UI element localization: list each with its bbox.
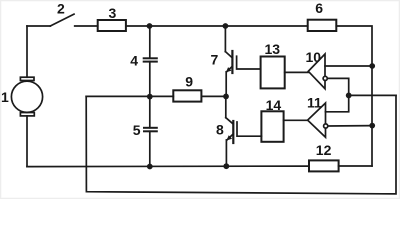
resistor R3	[98, 20, 126, 31]
op-amp U11 inv input wire	[328, 125, 372, 127]
wire top rail R3 to R6	[126, 25, 308, 27]
junction right bus / U11 input	[369, 123, 375, 129]
resistor R9	[173, 90, 201, 101]
junction lower rail / Q8 emitter	[223, 163, 229, 169]
svg-text:6: 6	[315, 0, 323, 16]
transistor Q7	[225, 52, 232, 58]
svg-text:8: 8	[216, 121, 224, 137]
junction right bus / U10 input	[369, 63, 375, 69]
op-amp U10 inv bubble	[323, 76, 327, 80]
wire R6 to right bus corner	[336, 26, 372, 166]
svg-text:1: 1	[1, 89, 9, 105]
capacitor C5	[144, 127, 157, 129]
capacitor C5 top wire	[149, 96, 151, 127]
op-amp U11	[308, 103, 326, 137]
block 14	[261, 111, 283, 142]
svg-text:11: 11	[307, 95, 322, 111]
svg-text:10: 10	[306, 49, 322, 65]
wire left feedback drop	[86, 95, 396, 193]
motor M1	[11, 81, 42, 112]
switch S2 left contact wire	[27, 25, 50, 27]
svg-text:2: 2	[57, 0, 65, 16]
motor M1 bottom lead wire	[26, 116, 28, 167]
motor M1 top lead wire	[26, 26, 28, 77]
svg-text:5: 5	[133, 122, 141, 138]
switch S2 blade	[50, 14, 74, 26]
wire R9 to Q7 emitter node	[201, 95, 226, 97]
wire feedback top horizontal	[349, 94, 396, 96]
svg-text:14: 14	[266, 97, 282, 113]
resistor R12	[309, 160, 339, 171]
junction top rail / C4	[147, 23, 153, 29]
junction middle rail / Q7 emitter	[223, 94, 229, 100]
svg-text:13: 13	[265, 41, 281, 57]
op-amp U10 noninv input wire	[325, 65, 372, 67]
wire middle rail	[86, 95, 173, 97]
wire lower rail	[27, 165, 309, 168]
capacitor C4 bottom wire	[149, 62, 151, 97]
transistor Q7 base wire	[237, 56, 261, 69]
transistor Q8 emitter wire	[225, 140, 227, 166]
junction lower rail / C5	[147, 164, 153, 170]
resistor R6	[308, 20, 337, 31]
junction feedback node	[346, 93, 352, 99]
capacitor C4 top wire	[149, 26, 151, 58]
wire node to U11 noninv input	[326, 95, 349, 111]
junction middle rail / C4 C5	[147, 94, 153, 100]
junction top rail / Q7 collector	[223, 23, 229, 29]
switch S2 right contact wire	[75, 25, 98, 27]
wire block13 to U10	[285, 71, 309, 73]
transistor Q8	[226, 118, 233, 124]
capacitor C5 bottom wire	[149, 131, 151, 166]
svg-text:4: 4	[130, 52, 138, 68]
op-amp U10	[308, 54, 325, 89]
op-amp U10 inv input wire	[327, 78, 348, 95]
wire block14 to U11	[284, 119, 308, 121]
transistor Q8 base wire	[237, 122, 261, 136]
svg-text:12: 12	[316, 142, 332, 158]
svg-text:7: 7	[211, 52, 219, 68]
transistor Q7 collector wire	[224, 26, 226, 52]
svg-text:9: 9	[185, 74, 193, 90]
op-amp U11 inv bubble	[324, 124, 328, 128]
block 13	[261, 57, 285, 89]
transistor Q7 emitter wire	[225, 72, 227, 97]
svg-text:3: 3	[109, 5, 117, 21]
transistor Q8 collector wire	[225, 96, 227, 117]
capacitor C4	[144, 57, 157, 59]
wire R12 to right bus	[339, 165, 372, 167]
